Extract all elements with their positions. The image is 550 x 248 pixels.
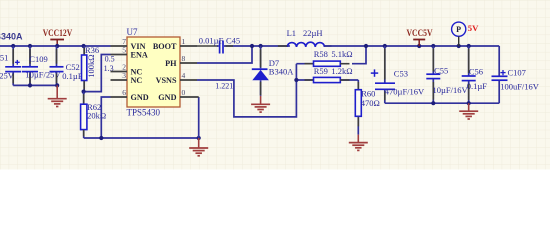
svg-text:B340A: B340A bbox=[269, 66, 294, 76]
junction dot PH node bbox=[250, 44, 254, 48]
svg-text:U7: U7 bbox=[127, 27, 138, 37]
pin numbers and names right side U7 bbox=[153, 37, 186, 102]
resistor R36 100k bbox=[82, 45, 100, 92]
diode value label B340A (left edge, cut off) bbox=[0, 32, 23, 42]
junction dots output ground rail bbox=[431, 101, 471, 105]
annotation 1.221 bbox=[215, 82, 233, 91]
junction dots on chip ground rail bbox=[99, 136, 201, 140]
svg-text:C107: C107 bbox=[508, 68, 526, 78]
op-amp U7 TPS5430 body bbox=[127, 27, 181, 118]
wire ENA pin to divider node bbox=[84, 55, 111, 92]
wire PH pin up to switch node bbox=[197, 46, 252, 63]
svg-text:0.01µF: 0.01µF bbox=[199, 35, 224, 45]
svg-text:C45: C45 bbox=[226, 35, 240, 45]
junction dot diode node bbox=[259, 44, 263, 48]
svg-text:5: 5 bbox=[122, 46, 126, 55]
junction dot R58 top bbox=[364, 44, 368, 48]
svg-text:R59: R59 bbox=[314, 66, 328, 76]
schematic sheet background bbox=[0, 0, 550, 170]
probe P 5V bbox=[452, 22, 480, 46]
capacitor C52 0.1uF bbox=[50, 46, 83, 85]
svg-text:10µF/16V: 10µF/16V bbox=[433, 85, 469, 95]
svg-text:C56: C56 bbox=[469, 66, 483, 76]
wire GND pin6 down to ground rail bbox=[101, 97, 110, 138]
power flag VCC5V bbox=[407, 29, 433, 46]
svg-text:470µF/16V: 470µF/16V bbox=[385, 87, 425, 97]
ground symbol R60 bbox=[349, 135, 368, 151]
svg-text:R58: R58 bbox=[314, 49, 328, 59]
resistor R59 1.2k bbox=[296, 66, 358, 83]
svg-text:1: 1 bbox=[182, 37, 186, 46]
resistor R62 20k bbox=[81, 92, 107, 138]
svg-text:4: 4 bbox=[182, 71, 186, 80]
junction dots on input ground rail bbox=[28, 83, 59, 87]
resistor R58 5.1k bbox=[296, 46, 366, 66]
capacitor C45 0.01uF bootstrap bbox=[199, 35, 240, 53]
wire 5V output rail bbox=[325, 45, 500, 47]
svg-text:0.1µF: 0.1µF bbox=[467, 81, 488, 91]
svg-text:BOOT: BOOT bbox=[153, 42, 177, 51]
wire BOOT to C45 bbox=[197, 45, 219, 47]
svg-text:6: 6 bbox=[122, 88, 126, 97]
wire right GND pin down bbox=[198, 97, 200, 138]
svg-text:PH: PH bbox=[165, 59, 177, 68]
inductor L1 22uH bbox=[278, 28, 332, 47]
svg-text:1.221: 1.221 bbox=[215, 82, 233, 91]
svg-text:B340A: B340A bbox=[0, 32, 23, 42]
svg-text:GND: GND bbox=[131, 93, 149, 102]
capacitor C56 0.1uF bbox=[462, 46, 488, 103]
capacitor C107 100uF/16V bbox=[492, 46, 540, 103]
svg-text:NC: NC bbox=[131, 76, 143, 85]
svg-text:0: 0 bbox=[182, 88, 186, 97]
wire output ground rail bbox=[385, 102, 499, 104]
svg-text:C53: C53 bbox=[394, 68, 408, 78]
wire input caps ground rail bbox=[13, 84, 57, 86]
svg-text:GND: GND bbox=[158, 93, 176, 102]
diode D7 B340A bbox=[252, 46, 294, 96]
pin numbers and names left side U7 bbox=[122, 37, 149, 102]
svg-text:22µH: 22µH bbox=[303, 28, 323, 38]
svg-text:100µF/25V: 100µF/25V bbox=[0, 71, 15, 81]
svg-text:20kΩ: 20kΩ bbox=[87, 111, 106, 121]
svg-text:100uF/16V: 100uF/16V bbox=[500, 82, 540, 92]
pin stubs left side U7 bbox=[111, 46, 128, 97]
svg-text:8: 8 bbox=[182, 54, 186, 63]
resistor R60 470ohm bbox=[355, 80, 380, 135]
ground symbol chip bbox=[189, 138, 208, 156]
capacitor C109 10uF/25V bbox=[22, 46, 61, 85]
capacitor C55 10uF/16V bbox=[426, 46, 468, 103]
svg-text:C55: C55 bbox=[434, 66, 448, 76]
svg-text:R36: R36 bbox=[85, 45, 99, 55]
junction dots on 5V rail bbox=[383, 44, 471, 48]
wire 12V input rail bbox=[0, 45, 111, 47]
capacitor C751 (polarized input cap, cut at left edge) bbox=[0, 46, 21, 85]
svg-text:0.1µF: 0.1µF bbox=[62, 71, 83, 81]
wire VSNS feedback bbox=[197, 64, 296, 117]
svg-text:1.2kΩ: 1.2kΩ bbox=[331, 66, 352, 76]
svg-text:L1: L1 bbox=[287, 28, 296, 38]
svg-text:5.1kΩ: 5.1kΩ bbox=[331, 49, 352, 59]
wire chip ground rail bbox=[84, 137, 199, 139]
wire C45 to PH node bbox=[224, 45, 290, 47]
node junction dots on 12V rail bbox=[11, 44, 86, 48]
annotation 0.5 bbox=[105, 55, 115, 64]
junction dot divider node bbox=[82, 90, 86, 94]
power flag VCC12V bbox=[43, 29, 73, 46]
svg-text:5V: 5V bbox=[468, 23, 479, 33]
svg-text:C751: C751 bbox=[0, 53, 8, 63]
svg-text:100kΩ: 100kΩ bbox=[86, 54, 96, 77]
ground symbol diode bbox=[251, 96, 270, 112]
svg-text:VSNS: VSNS bbox=[156, 76, 177, 85]
svg-text:470Ω: 470Ω bbox=[361, 98, 380, 108]
ground symbol output caps bbox=[459, 103, 478, 119]
svg-text:VCC12V: VCC12V bbox=[43, 29, 73, 39]
capacitor C53 470uF/16V bbox=[371, 46, 425, 103]
svg-text:C109: C109 bbox=[29, 54, 47, 64]
svg-text:ENA: ENA bbox=[131, 51, 148, 60]
junction dot feedback node bbox=[294, 78, 298, 82]
annotation 1.3 bbox=[104, 64, 114, 73]
svg-text:VCC5V: VCC5V bbox=[407, 29, 433, 39]
svg-text:TPS5430: TPS5430 bbox=[127, 108, 161, 118]
svg-text:3: 3 bbox=[122, 71, 126, 80]
svg-text:P: P bbox=[456, 25, 461, 34]
svg-text:0.5: 0.5 bbox=[105, 55, 115, 64]
ground symbol for input caps bbox=[48, 85, 67, 106]
pin stubs right side U7 bbox=[180, 46, 199, 97]
